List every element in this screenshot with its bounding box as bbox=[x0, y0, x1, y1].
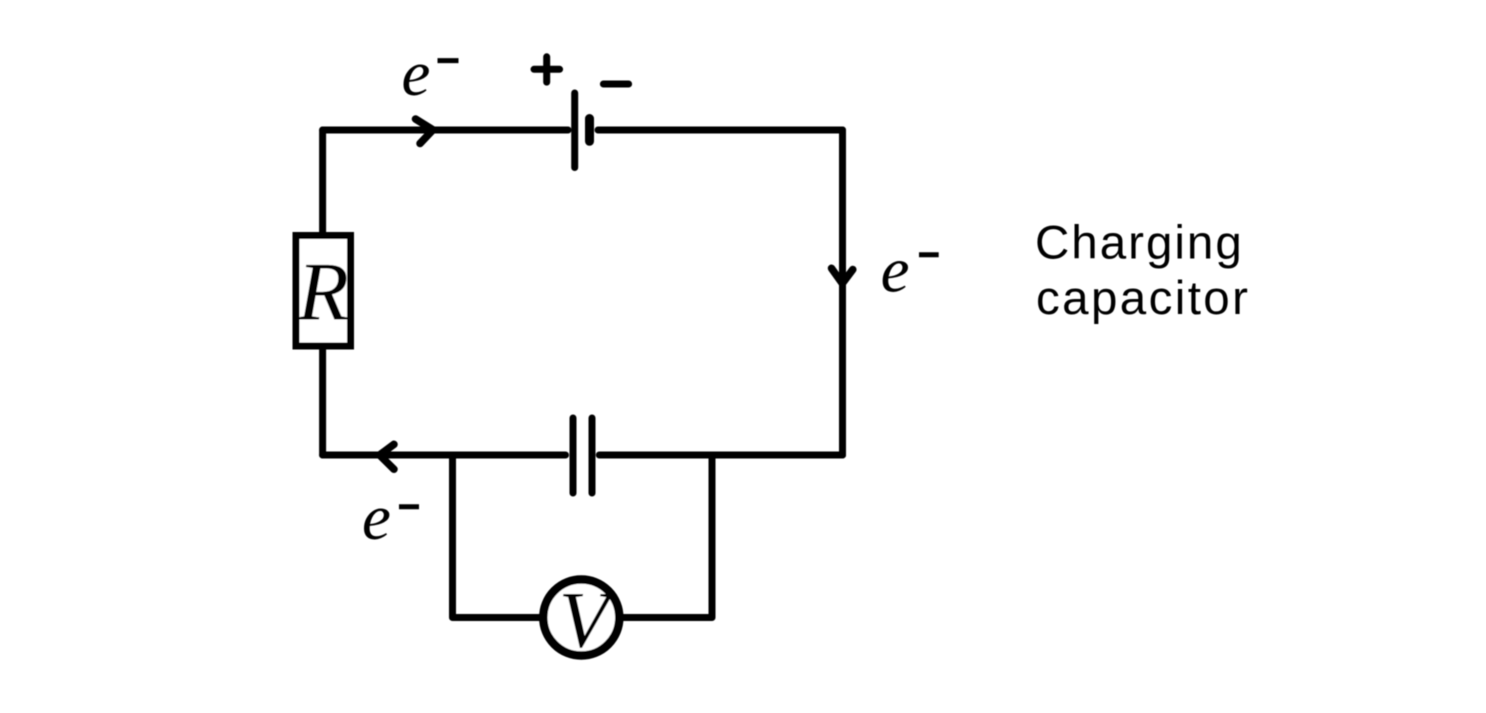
svg-text:capacitor: capacitor bbox=[1036, 272, 1250, 325]
label: Charging capacitor bbox=[1035, 216, 1250, 325]
battery B1 (cell) bbox=[534, 57, 629, 168]
capacitor C bbox=[573, 418, 592, 493]
wire: top-right segment from battery negative plate to right corner bbox=[598, 127, 843, 134]
capacitor left plate bbox=[570, 418, 577, 493]
wire: right vertical segment bbox=[839, 130, 846, 455]
svg-text:e: e bbox=[402, 38, 431, 110]
wire: voltmeter right branch bbox=[623, 455, 712, 618]
wire: top-left segment from left corner to battery positive plate bbox=[323, 127, 568, 134]
wire: bottom-left segment from capacitor left plate to left corner bbox=[323, 452, 566, 459]
wire: voltmeter left branch bbox=[453, 455, 542, 618]
wire: bottom-right segment from right corner to capacitor right plate bbox=[599, 452, 842, 459]
svg-text:R: R bbox=[297, 246, 349, 339]
wire: left vertical upper segment (top corner to resistor) bbox=[319, 130, 326, 235]
svg-text:Charging: Charging bbox=[1035, 216, 1244, 269]
label e- (right wire) bbox=[881, 235, 939, 307]
arrow: electron flow left (bottom wire) bbox=[380, 444, 395, 469]
svg-text:V: V bbox=[559, 577, 617, 665]
voltmeter V bbox=[543, 577, 619, 665]
battery negative plate (short) bbox=[585, 119, 594, 142]
label e- (bottom wire) bbox=[362, 482, 419, 554]
arrow: electron flow right (top wire) bbox=[416, 119, 434, 144]
battery plus label bbox=[534, 57, 560, 82]
capacitor right plate bbox=[589, 418, 596, 493]
label e- (top wire) bbox=[402, 38, 459, 110]
wire: left vertical lower segment (resistor to bottom corner) bbox=[319, 346, 326, 455]
svg-text:e: e bbox=[362, 482, 391, 554]
svg-text:e: e bbox=[881, 235, 910, 307]
resistor R bbox=[296, 236, 351, 347]
battery minus label bbox=[603, 81, 628, 88]
arrow: electron flow down (right wire) bbox=[832, 268, 853, 283]
battery positive plate (long) bbox=[571, 93, 578, 168]
